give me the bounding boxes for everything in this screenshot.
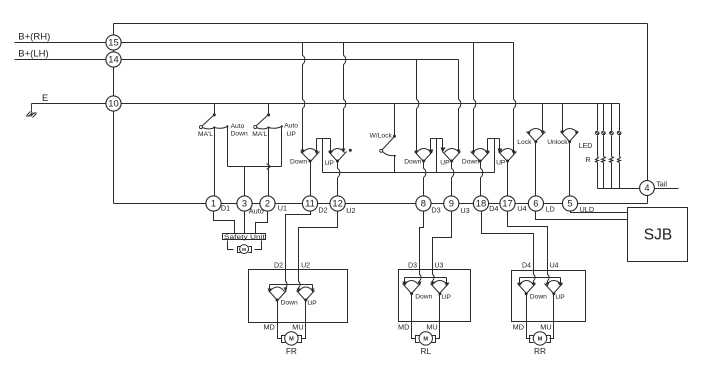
svg-text:Auto: Auto: [231, 123, 245, 130]
wire: pin 2 to safety unit: [256, 211, 268, 234]
wire: B+(RH) drop to RR Down contact: [473, 43, 475, 152]
wire: B+(LH) end drop to RL UP contact: [458, 60, 460, 151]
wire: pin 6 to SJB: [536, 211, 629, 220]
contact triangle RR Down: [471, 152, 490, 162]
safety unit motor: [238, 247, 241, 253]
svg-text:4: 4: [644, 182, 649, 193]
contact triangle FR motor Down: [269, 291, 287, 301]
wire: window-lock common line: [323, 172, 495, 174]
svg-text:B+(LH): B+(LH): [18, 48, 48, 59]
svg-text:9: 9: [449, 198, 454, 209]
wire: pin 1 to safety unit: [214, 211, 235, 234]
wire: FR Down apex to pin 11: [310, 162, 312, 196]
wire: RL common tap down: [436, 139, 438, 173]
wire: RL MU lead: [436, 294, 440, 339]
svg-text:2: 2: [265, 198, 270, 209]
contact triangle Lock: [527, 132, 546, 142]
svg-text:W/Lock: W/Lock: [370, 133, 393, 140]
svg-text:Unlock: Unlock: [547, 139, 568, 146]
svg-text:6: 6: [533, 198, 538, 209]
svg-text:Down: Down: [404, 158, 421, 165]
FR window motor module box: [249, 270, 348, 323]
svg-text:B+(RH): B+(RH): [18, 31, 50, 42]
svg-text:UP: UP: [307, 300, 317, 307]
svg-text:Auto: Auto: [284, 123, 298, 130]
junction dot right of FR UP: [349, 149, 352, 152]
wire: RR Down apex to pin 18: [480, 162, 482, 196]
svg-text:D3: D3: [431, 205, 440, 214]
wire: B+(RH) drop to FR UP contact: [343, 43, 345, 149]
pin 15: [106, 35, 121, 50]
wire: safety unit to motor: [228, 241, 262, 250]
LED 1: [595, 131, 600, 136]
svg-text:LED: LED: [579, 143, 593, 150]
contact triangle RL UP: [443, 152, 461, 162]
wire: RL Down apex to pin 8: [423, 162, 425, 196]
motor FR: [282, 336, 286, 343]
pin 9: [444, 196, 459, 211]
pin 5: [562, 196, 577, 211]
pin 8: [416, 196, 431, 211]
wire: right vertical to Tail pin: [647, 24, 649, 204]
svg-text:D4: D4: [489, 204, 498, 213]
svg-text:MA'L: MA'L: [198, 131, 213, 138]
wire: FR common tap down: [322, 139, 324, 173]
svg-text:U2: U2: [301, 262, 310, 269]
pin 2: [260, 196, 275, 211]
svg-text:M: M: [538, 337, 543, 343]
svg-text:5: 5: [567, 198, 572, 209]
wire: E drop to Lock contact: [542, 104, 544, 131]
svg-text:UP: UP: [325, 160, 335, 167]
svg-text:10: 10: [108, 98, 118, 109]
pin 1: [206, 196, 221, 211]
svg-text:18: 18: [476, 198, 486, 209]
svg-text:UP: UP: [440, 159, 450, 166]
svg-text:U3: U3: [460, 206, 469, 215]
svg-text:1: 1: [211, 198, 216, 209]
wire: LED common bottom bar: [598, 188, 641, 190]
RR window motor module box: [512, 271, 586, 322]
svg-text:M: M: [242, 247, 246, 252]
svg-text:D2: D2: [274, 262, 283, 269]
wire: FR U input: [298, 270, 300, 289]
wire: FR UP apex to pin 12: [337, 162, 339, 196]
svg-text:D2: D2: [318, 205, 327, 214]
svg-text:MU: MU: [540, 322, 551, 331]
wire: switch1 MA'L contact to pin 1: [214, 129, 216, 196]
wire: FR module common bar: [270, 285, 313, 290]
contact triangle RR motor UP: [545, 284, 563, 294]
svg-text:Down: Down: [290, 158, 307, 165]
LED 4: [617, 131, 622, 136]
svg-text:15: 15: [108, 37, 118, 48]
svg-text:Tail: Tail: [656, 180, 667, 189]
wire: RR common tap down: [494, 139, 496, 173]
wire: W/Lock to common line: [394, 157, 396, 173]
contact triangle FR motor UP: [297, 291, 315, 301]
svg-text:U2: U2: [346, 206, 355, 215]
svg-text:D4: D4: [522, 262, 531, 269]
svg-text:8: 8: [421, 198, 426, 209]
motor RL: [416, 336, 420, 343]
wire: FR MD lead: [278, 301, 282, 339]
wire: RL MD lead: [412, 294, 416, 339]
svg-text:MU: MU: [292, 322, 303, 331]
svg-text:RR: RR: [534, 346, 546, 356]
contact triangle RL motor UP: [431, 284, 449, 294]
svg-text:MD: MD: [398, 322, 409, 331]
svg-text:U4: U4: [517, 204, 526, 213]
svg-text:12: 12: [332, 198, 342, 209]
contact triangle RR UP: [499, 152, 517, 162]
wire: RR module common bar: [520, 278, 561, 284]
svg-text:Down: Down: [462, 158, 479, 165]
pin 12: [330, 196, 345, 211]
wire: pin 18 to RR D4: [482, 211, 534, 271]
pin 18: [473, 196, 488, 211]
wire: Lock apex to pin 6: [535, 142, 537, 196]
wire: pin 3 to safety unit: [244, 211, 246, 234]
wire: B+(LH) drop to RL Down contact: [416, 60, 418, 151]
pin 11: [302, 196, 317, 211]
svg-text:Lock: Lock: [517, 139, 532, 146]
switch MA'L auto-up (driver): [267, 113, 270, 116]
wire: FR contacts common link: [317, 139, 331, 152]
wire: FR MU lead: [302, 301, 306, 339]
wire: Unlock apex to pin 5: [569, 142, 571, 196]
svg-text:UP: UP: [555, 294, 565, 301]
svg-text:SJB: SJB: [644, 227, 672, 244]
wire: pin 11 to FR D2: [286, 211, 311, 270]
RL window motor module box: [399, 270, 471, 322]
wire: E drop to switch 2 pivot: [268, 104, 270, 115]
wire: switch2 auto contact drop: [281, 128, 283, 167]
wire: RR U input: [547, 271, 549, 284]
resistor R1: [596, 157, 599, 163]
pin 3: [237, 196, 252, 211]
svg-text:M: M: [423, 337, 428, 343]
junction dot right of Unlock: [575, 131, 578, 134]
svg-text:LD: LD: [546, 205, 555, 214]
svg-text:M: M: [289, 337, 294, 343]
svg-text:Safety Unit: Safety Unit: [224, 234, 265, 241]
ground: [27, 104, 37, 118]
wire: auto link to pin 3: [244, 167, 246, 196]
svg-text:UP: UP: [496, 159, 506, 166]
wire: left vertical bus (pins 15-14-10): [113, 24, 115, 204]
wire: RL D input: [419, 270, 421, 282]
wire: FR D input: [285, 270, 287, 288]
svg-text:U3: U3: [435, 262, 444, 269]
svg-text:MD: MD: [263, 322, 274, 331]
pin 10: [106, 96, 121, 111]
LED 2: [601, 131, 606, 136]
svg-text:14: 14: [108, 54, 118, 65]
svg-text:MA'L: MA'L: [252, 131, 267, 138]
wire: pin 17 to RR U4: [508, 211, 548, 271]
pin 17: [500, 196, 515, 211]
wire: top loop line: [114, 23, 648, 25]
svg-text:Down: Down: [530, 293, 547, 300]
svg-text:R: R: [585, 157, 590, 164]
wire: B+(RH) rail: [15, 42, 514, 44]
wire: B+(LH) rail: [15, 59, 459, 61]
contact triangle FR Down: [301, 152, 320, 162]
wire: pin 5 to SJB: [571, 211, 629, 213]
svg-text:11: 11: [305, 198, 315, 209]
switch MA'L auto-down (driver): [213, 113, 216, 116]
safety unit box: [223, 234, 266, 240]
wire: B+(RH) end drop to RR UP contact: [513, 43, 515, 152]
svg-text:MD: MD: [513, 322, 524, 331]
wire: E rail: [32, 103, 620, 105]
svg-text:E: E: [42, 93, 48, 103]
wire: switch2 MA'L contact to pin 2: [268, 129, 270, 196]
wire: main bus: [114, 203, 648, 205]
wire: RR UP apex to pin 17: [507, 162, 509, 196]
svg-text:U4: U4: [550, 262, 559, 269]
svg-text:UP: UP: [442, 294, 452, 301]
resistor R3: [610, 157, 614, 163]
svg-text:UP: UP: [287, 131, 297, 138]
switch W/Lock: [393, 135, 396, 138]
resistor R2: [602, 157, 606, 163]
wire: pin 8 to RL D3: [420, 211, 424, 270]
pin 6: [528, 196, 543, 211]
svg-text:RL: RL: [420, 346, 431, 356]
svg-text:U1: U1: [278, 204, 287, 213]
wire: RR MU lead: [550, 294, 554, 339]
junction dot left of Lock: [527, 131, 530, 134]
LED 3: [609, 131, 614, 136]
wire: LED branch 4: [619, 104, 621, 189]
svg-text:Down: Down: [231, 131, 248, 138]
contact triangle RR motor Down: [518, 284, 536, 294]
motor RR: [530, 336, 534, 343]
pin 14: [106, 52, 121, 67]
wire: RL UP apex to pin 9: [451, 162, 453, 196]
svg-text:FR: FR: [286, 346, 297, 356]
svg-text:3: 3: [242, 198, 247, 209]
contact triangle RL Down: [415, 152, 433, 162]
wire: RR D input: [533, 271, 535, 283]
wire: RL contacts common link: [431, 139, 443, 151]
wire: RR MD lead: [527, 294, 531, 339]
wire: pin 12 to FR U2: [299, 211, 338, 270]
resistor R4: [618, 157, 621, 163]
wire: LED branch 3: [611, 104, 613, 189]
pin 4: [640, 181, 655, 196]
wire: pin 9 to RL U3: [433, 211, 452, 270]
svg-text:17: 17: [502, 198, 512, 209]
wire: RL module common bar: [405, 278, 447, 283]
wire: B+(RH) drop to FR Down contact: [302, 43, 304, 150]
wire: tail line: [655, 188, 679, 190]
contact triangle Unlock: [561, 132, 579, 142]
wire: E drop to switch 1 pivot: [214, 104, 216, 115]
wire: E drop to W/Lock: [394, 104, 396, 136]
svg-text:MU: MU: [426, 322, 437, 331]
contact triangle RL motor Down: [403, 284, 421, 294]
junction arrow on auto link: [267, 164, 271, 170]
wire: RR contacts common link: [488, 139, 500, 151]
wire: auto link line: [228, 166, 282, 168]
wire: LED branch 2: [603, 104, 605, 189]
svg-text:Down: Down: [281, 300, 298, 307]
wire: E drop to Unlock contact: [562, 104, 564, 131]
svg-text:D1: D1: [221, 204, 230, 213]
SJB box: [628, 208, 688, 262]
svg-text:D3: D3: [408, 262, 417, 269]
wire: LED branch 1: [597, 104, 599, 189]
contact triangle FR UP: [329, 152, 347, 162]
wire: switch1 auto contact drop: [227, 128, 229, 167]
svg-text:Down: Down: [415, 293, 432, 300]
wire: RL U input: [432, 270, 434, 282]
